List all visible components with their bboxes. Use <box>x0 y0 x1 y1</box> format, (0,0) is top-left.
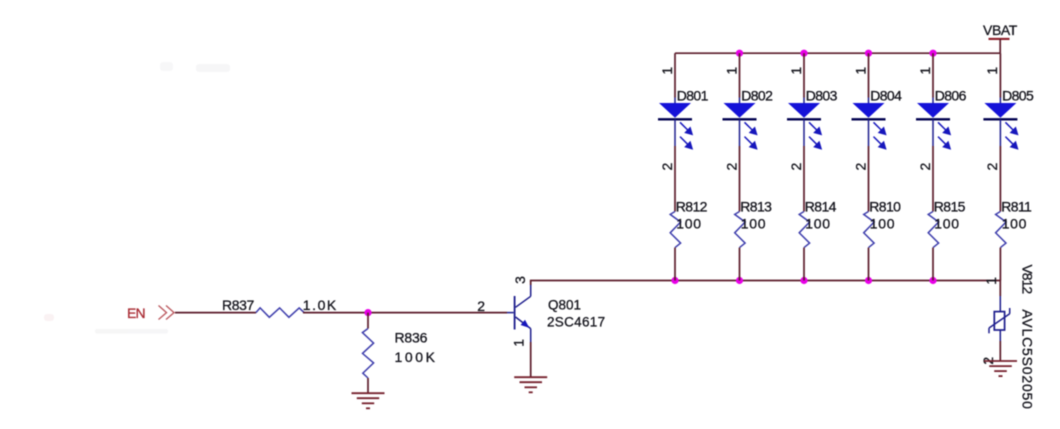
LED D802 emission arrows <box>745 122 757 148</box>
wire R815 to bottom rail <box>932 248 934 281</box>
resistor R815 <box>928 212 938 248</box>
label R812 <box>676 198 708 214</box>
wire R814 to bottom rail <box>803 248 805 281</box>
pin number 2 of D803 <box>788 162 804 170</box>
wire D801 cathode to R812 <box>674 146 676 212</box>
svg-text:100: 100 <box>805 216 830 232</box>
smudge artifacts <box>44 62 230 334</box>
junction bottom rail node 2 <box>736 277 743 284</box>
svg-text:100K: 100K <box>395 349 438 365</box>
label D805 <box>1002 87 1034 103</box>
svg-text:D805: D805 <box>1002 87 1034 103</box>
pin number 2 (base) <box>477 298 485 314</box>
wire bottom rail (collector bus) <box>530 280 1001 282</box>
junction bottom rail node 3 <box>800 277 807 284</box>
LED D803 <box>787 103 821 146</box>
Q801 emitter arrowhead <box>521 320 530 328</box>
pin number 1 of D802 <box>723 67 739 75</box>
svg-text:1: 1 <box>788 67 804 75</box>
svg-text:EN: EN <box>127 305 145 321</box>
wire VBAT rail to D805 anode <box>999 53 1001 103</box>
value 100K <box>395 349 438 365</box>
pin number 1 of D804 <box>852 67 868 75</box>
label D801 <box>677 87 709 103</box>
svg-text:2: 2 <box>984 162 1000 170</box>
pin number 1 of D801 <box>659 67 675 75</box>
svg-text:1: 1 <box>659 67 675 75</box>
wire EN to R837 <box>175 312 256 314</box>
junction node base of R836 <box>364 309 371 316</box>
power VBAT label <box>983 22 1018 38</box>
wire Q801 emitter to ground <box>530 342 532 377</box>
wire D802 cathode to R813 <box>739 146 741 212</box>
wire VBAT rail to D801 anode <box>674 53 676 103</box>
wire R813 to bottom rail <box>739 248 741 281</box>
svg-text:2: 2 <box>659 162 675 170</box>
LED D804 emission arrows <box>874 122 886 148</box>
svg-text:V812: V812 <box>1020 264 1036 294</box>
transistor Q801 symbol <box>515 285 531 342</box>
svg-text:1: 1 <box>984 67 1000 75</box>
label R836 <box>395 330 428 346</box>
svg-text:2: 2 <box>477 298 485 314</box>
svg-text:1: 1 <box>723 67 739 75</box>
value 100 of R811 <box>1002 216 1027 232</box>
LED D804 <box>852 103 886 146</box>
wire R837 to Q801 base <box>303 312 514 314</box>
svg-text:100: 100 <box>1002 216 1027 232</box>
value 100 of R813 <box>741 216 766 232</box>
svg-text:100: 100 <box>676 216 701 232</box>
label R813 <box>740 198 772 214</box>
svg-text:2: 2 <box>723 162 739 170</box>
LED D801 emission arrows <box>680 122 692 148</box>
wire Q801 collector to rail <box>530 281 532 286</box>
ground GND under R836 <box>352 393 385 408</box>
label D806 <box>935 87 967 103</box>
wire V812 to ground <box>999 330 1001 361</box>
svg-text:R837: R837 <box>222 297 254 313</box>
wire D805 cathode to R811 <box>999 146 1001 212</box>
pin number 2 of V812 <box>980 357 996 365</box>
port EN chevron symbol <box>159 306 175 320</box>
svg-text:1: 1 <box>983 277 999 285</box>
label R811 <box>1001 198 1032 214</box>
svg-text:100: 100 <box>870 216 895 232</box>
svg-text:R811: R811 <box>1001 198 1032 214</box>
svg-text:R836: R836 <box>395 330 428 346</box>
LED D805 <box>983 103 1017 146</box>
power VBAT bar symbol <box>989 39 1010 53</box>
wire R811 to bottom rail <box>999 248 1001 281</box>
label Q801 <box>548 298 581 313</box>
wire rail to V812 <box>999 281 1001 312</box>
svg-text:D804: D804 <box>870 87 902 103</box>
pin number 2 of D801 <box>659 162 675 170</box>
pin number 2 of D805 <box>984 162 1000 170</box>
pin number 1 of D803 <box>788 67 804 75</box>
value 100 of R810 <box>870 216 895 232</box>
svg-text:D801: D801 <box>677 87 709 103</box>
ground GND under Q801 <box>514 377 547 392</box>
wire junction to R836 <box>367 313 369 329</box>
junction top rail node 4 <box>865 50 872 57</box>
pin number 2 of D806 <box>917 162 933 170</box>
label R837 <box>222 297 254 313</box>
LED D803 emission arrows <box>809 122 821 148</box>
junction top rail node 2 <box>736 50 743 57</box>
wire D804 cathode to R810 <box>868 146 870 212</box>
svg-text:1: 1 <box>917 67 933 75</box>
wire VBAT rail to D804 anode <box>868 53 870 103</box>
svg-text:2: 2 <box>852 162 868 170</box>
varistor V812 symbol <box>989 308 1010 333</box>
svg-text:D803: D803 <box>806 87 838 103</box>
wire R812 to bottom rail <box>674 248 676 281</box>
svg-text:1: 1 <box>852 67 868 75</box>
value 1.0K <box>303 297 338 313</box>
LED D801 <box>658 103 692 146</box>
pin number 1 (emitter) <box>511 339 527 347</box>
label R814 <box>805 198 837 214</box>
svg-text:Q801: Q801 <box>548 298 581 313</box>
svg-text:1: 1 <box>511 339 527 347</box>
svg-text:R813: R813 <box>740 198 772 214</box>
svg-text:100: 100 <box>741 216 766 232</box>
wire VBAT rail to D803 anode <box>803 53 805 103</box>
value AVLC5S02050 (rotated) <box>1020 309 1036 409</box>
resistor R837 <box>256 308 304 317</box>
port EN label <box>127 305 145 321</box>
resistor R811 <box>996 212 1006 248</box>
value 100 of R815 <box>934 216 959 232</box>
resistor R810 <box>864 212 874 248</box>
svg-text:R812: R812 <box>676 198 708 214</box>
junction bottom rail node 1 <box>671 277 678 284</box>
label D804 <box>870 87 902 103</box>
wire top rail (VBAT bus) <box>675 52 1000 54</box>
label R815 <box>934 198 966 214</box>
pin number 3 (collector) <box>512 276 528 284</box>
resistor R814 <box>799 212 809 248</box>
svg-text:VBAT: VBAT <box>983 22 1018 38</box>
pin number 2 of D802 <box>723 162 739 170</box>
pin number 1 of D806 <box>917 67 933 75</box>
pin number 1 of D805 <box>984 67 1000 75</box>
resistor R813 <box>735 212 745 248</box>
label D802 <box>741 87 773 103</box>
svg-text:100: 100 <box>934 216 959 232</box>
svg-text:D802: D802 <box>741 87 773 103</box>
svg-text:R815: R815 <box>934 198 966 214</box>
svg-text:R814: R814 <box>805 198 837 214</box>
value 100 of R814 <box>805 216 830 232</box>
wire R810 to bottom rail <box>868 248 870 281</box>
svg-text:3: 3 <box>512 276 528 284</box>
value 2SC4617 <box>547 315 605 330</box>
resistor R836 <box>362 329 373 379</box>
pin number 1 of V812 <box>983 277 999 285</box>
LED D805 emission arrows <box>1005 122 1017 148</box>
svg-text:AVLC5S02050: AVLC5S02050 <box>1020 309 1036 409</box>
junction top rail node 5 <box>929 50 936 57</box>
LED D802 <box>723 103 757 146</box>
label R810 <box>869 198 901 214</box>
wire VBAT rail to D806 anode <box>932 53 934 103</box>
svg-text:2: 2 <box>917 162 933 170</box>
wire VBAT rail to D802 anode <box>739 53 741 103</box>
junction top rail node 3 <box>800 50 807 57</box>
svg-text:2: 2 <box>788 162 804 170</box>
wire D806 cathode to R815 <box>932 146 934 212</box>
svg-text:2SC4617: 2SC4617 <box>547 315 605 330</box>
label D803 <box>806 87 838 103</box>
junction bottom rail node 5 <box>929 277 936 284</box>
wire R836 to ground <box>367 378 369 393</box>
value 100 of R812 <box>676 216 701 232</box>
svg-text:R810: R810 <box>869 198 901 214</box>
label V812 (rotated) <box>1020 264 1036 294</box>
resistor R812 <box>670 212 680 248</box>
LED D806 emission arrows <box>938 122 950 148</box>
pin number 2 of D804 <box>852 162 868 170</box>
svg-text:1.0K: 1.0K <box>303 297 338 313</box>
ground GND under V812 <box>984 361 1017 376</box>
LED D806 <box>916 103 950 146</box>
wire D803 cathode to R814 <box>803 146 805 212</box>
junction bottom rail node 4 <box>865 277 872 284</box>
svg-text:D806: D806 <box>935 87 967 103</box>
